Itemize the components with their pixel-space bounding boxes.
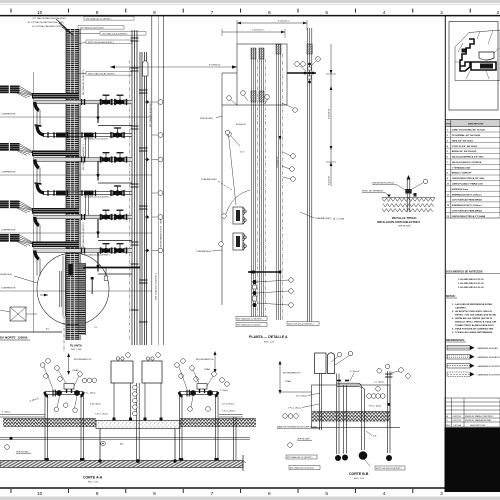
right column divider	[444, 16, 446, 488]
joint body	[405, 189, 411, 194]
bottom boxed label 2	[289, 466, 320, 470]
svg-text:1/2" DIA. DE REPOSICION (2007): 1/2" DIA. DE REPOSICION (2007)	[32, 17, 66, 20]
svg-text:T.F.CL. Ø(xx): T.F.CL. Ø(xx)	[288, 408, 301, 410]
floor line level 1	[0, 116, 152, 118]
tank 2	[142, 361, 162, 383]
tank legs	[114, 383, 161, 460]
svg-text:SPARRAGOS 5/8"9"x100mm: SPARRAGOS 5/8"9"x100mm	[452, 193, 482, 196]
key plan outline	[455, 30, 500, 81]
svg-text:4: 4	[383, 491, 386, 497]
ruler numbers top	[37, 10, 500, 16]
svg-text:CL. Ø(xx): CL. Ø(xx)	[374, 382, 384, 384]
parts table	[446, 120, 500, 219]
svg-text:9: 9	[96, 10, 99, 16]
label GAS-011	[100, 32, 146, 36]
junction dots on duct	[98, 459, 101, 462]
svg-text:EL 1/2"DIA. DE REPOSICION (200: EL 1/2"DIA. DE REPOSICION (2007)	[28, 21, 64, 24]
bottom caps	[335, 455, 341, 461]
svg-text:4" Ø(xxx): 4" Ø(xxx)	[350, 371, 359, 373]
duct bank bar	[0, 461, 243, 468]
legend row 3	[447, 364, 470, 369]
svg-text:ESC: 1:50: ESC: 1:50	[354, 478, 365, 480]
balloons row mid rect	[227, 96, 232, 101]
svg-text:DOCUMENTOS DE ANTECEDE: DOCUMENTOS DE ANTECEDE	[446, 271, 483, 274]
svg-text:8: 8	[153, 491, 156, 497]
planta bottom boxed label 2	[236, 323, 267, 327]
compresor labels	[1, 114, 16, 290]
top pipe labels boxed	[84, 17, 134, 21]
dashed centerline below	[63, 316, 65, 352]
circle thick branch pipe	[83, 267, 140, 269]
right balloons	[377, 369, 382, 374]
pipe clamp support 2	[233, 233, 247, 250]
detail circle A	[37, 253, 109, 325]
manifold stack floor 2	[0, 143, 32, 156]
clamp leader curves	[226, 190, 250, 214]
svg-text:SPARRAGOS 5/8"9"x100mm: SPARRAGOS 5/8"9"x100mm	[452, 204, 482, 207]
planta main rect	[237, 44, 287, 105]
cylinder B	[328, 353, 335, 374]
svg-text:JUNTA DIELECTRICA 2" PLANA: JUNTA DIELECTRICA 2" PLANA	[452, 215, 486, 218]
shallow pipe line	[0, 437, 250, 439]
svg-text:.... (B.L. 150R): .... (B.L. 150R)	[330, 219, 344, 221]
floor line level 3	[0, 232, 152, 234]
svg-text:2" Ø(xx): 2" Ø(xx)	[220, 390, 228, 392]
legend row 4	[447, 372, 470, 377]
earth hatch band A-A left	[3, 419, 96, 427]
svg-text:PB/TEO. CON LAS LINEAS QUE SE: PB/TEO. CON LAS LINEAS QUE SE IND	[455, 314, 497, 317]
svg-text:COMPRESOR: COMPRESOR	[1, 172, 16, 174]
svg-text:EL 1/2"DIA. CALIENTE (2007): EL 1/2"DIA. CALIENTE (2007)	[32, 25, 62, 28]
svg-text:1.- LAS EJES DE REFERENCIA EST: 1.- LAS EJES DE REFERENCIA ESTAN	[452, 303, 492, 306]
svg-text:CON TUERCAS PARA BRIDA: CON TUERCAS PARA BRIDA	[452, 199, 483, 202]
svg-text:B.L.: B.L.	[46, 329, 50, 331]
svg-text:10: 10	[37, 10, 43, 16]
svg-text:9: 9	[96, 491, 99, 497]
svg-text:CAÑO S/COSTURA 3/4" SCH-80: CAÑO S/COSTURA 3/4" SCH-80	[452, 129, 486, 132]
pipe row B floor 2	[35, 183, 163, 219]
tank balloons	[126, 353, 131, 358]
svg-text:DETALLE TIPICO: DETALLE TIPICO	[392, 216, 417, 220]
left balloons row	[283, 414, 288, 419]
svg-text:VALVULA MACHO C/PURGA: VALVULA MACHO C/PURGA	[452, 161, 482, 164]
circle thin pipe pair 2	[59, 271, 61, 307]
svg-text:FECHA: FECHA	[454, 424, 462, 427]
legend row 1	[447, 346, 470, 351]
svg-text:JUNTA PLANA 2" FIBRA CON: JUNTA PLANA 2" FIBRA CON	[452, 183, 483, 186]
sheet top border	[0, 15, 500, 17]
planta boundary polyline	[221, 73, 223, 305]
left regulator assembly	[45, 384, 84, 397]
svg-text:REV: REV	[446, 425, 451, 427]
svg-text:01/02/10: 01/02/10	[453, 416, 462, 418]
svg-text:Ø2"-GAS-002-01 (2007): Ø2"-GAS-002-01 (2007)	[237, 324, 261, 327]
svg-text:INSTRUMENTOS: INSTRUMENTOS	[74, 359, 92, 361]
svg-text:Ø2"-GAS-010-01 (2007): Ø2"-GAS-010-01 (2007)	[84, 138, 108, 141]
label SP-010	[86, 40, 132, 44]
svg-text:POS: POS	[446, 124, 451, 126]
svg-text:Ø1/2"-SP-010-A1 (EXIST.): Ø1/2"-SP-010-A1 (EXIST.)	[88, 41, 114, 44]
balloons row of four	[367, 394, 372, 399]
foundation square with X	[10, 307, 26, 321]
svg-text:7: 7	[211, 491, 214, 497]
small tank on riser	[143, 61, 149, 76]
balloon column between tanks	[133, 385, 138, 390]
svg-text:INSTRUMENTOS: INSTRUMENTOS	[196, 359, 214, 361]
riser pipe of detail	[406, 179, 408, 212]
circle inner wide hatch column	[79, 263, 86, 335]
svg-text:C.L.: C.L.	[94, 327, 98, 329]
svg-text:ESC: 1:50: ESC: 1:50	[88, 482, 99, 484]
note balloons	[5, 445, 10, 450]
svg-text:6: 6	[268, 10, 271, 16]
left wall column line	[33, 72, 35, 332]
earth hatch band B-B	[312, 412, 390, 423]
svg-text:CANTERO.: CANTERO.	[455, 307, 467, 310]
tank feet	[113, 418, 116, 421]
wall line 2	[163, 16, 165, 345]
clamp balloons	[222, 214, 227, 219]
svg-text:Ø2"-GAS-001-01 (EXIST.): Ø2"-GAS-001-01 (EXIST.)	[237, 318, 263, 321]
dim small arrows mid	[279, 136, 282, 140]
svg-text:PLANTA — DETALLE A: PLANTA — DETALLE A	[249, 335, 288, 339]
svg-text:JUNTA DIELECTRICA: JUNTA DIELECTRICA	[372, 182, 394, 185]
svg-text:S.T.D. Ø(xx): S.T.D. Ø(xx)	[222, 404, 234, 406]
riser top feed lines	[56, 19, 73, 35]
main hatched riser column	[66, 29, 79, 340]
svg-text:9"x0. Ø(xx): 9"x0. Ø(xx)	[296, 396, 307, 398]
svg-text:INSTRUMENTOS: INSTRUMENTOS	[283, 373, 301, 375]
wall line 1	[151, 16, 153, 345]
svg-text:1-GG-MM-33874-O-PL-03: 1-GG-MM-33874-O-PL-03	[458, 286, 484, 289]
svg-text:TIFAS: TIFAS	[285, 380, 292, 383]
svg-text:LUZ DE MEZANINE EXIST.- 9000: LUZ DE MEZANINE EXIST.- 9000	[160, 218, 163, 252]
top-left feed labels	[28, 17, 66, 28]
revision table	[445, 398, 500, 427]
svg-text:VER NOTA 5: VER NOTA 5	[200, 117, 214, 120]
svg-text:8: 8	[153, 10, 156, 16]
svg-text:CODO 90 3/4" SW 3000#: CODO 90 3/4" SW 3000#	[452, 145, 478, 148]
top dim line 2	[222, 31, 285, 33]
svg-text:BRIDA 2" S/WN RF: BRIDA 2" S/WN RF	[452, 172, 472, 175]
pipe row B floor 1	[35, 125, 163, 161]
svg-text:JUNTA DIELECTRICA 3/4" 150#: JUNTA DIELECTRICA 3/4" 150#	[452, 177, 485, 180]
svg-text:T.F.CL. Ø(xx): T.F.CL. Ø(xx)	[222, 411, 235, 413]
svg-text:TIFAS: TIFAS	[204, 368, 211, 371]
top dim line 1	[237, 22, 307, 24]
svg-text:DETALLE TIPICO. PREVIO A CADA: DETALLE TIPICO. PREVIO A CADA JUN	[455, 321, 497, 324]
svg-text:Ø2"-GAS-010-A1 (2007): Ø2"-GAS-010-A1 (2007)	[80, 26, 104, 29]
svg-text:Ø2"-GAS-011-A1 (EXIST.): Ø2"-GAS-011-A1 (EXIST.)	[84, 196, 110, 199]
svg-text:5: 5	[325, 491, 328, 497]
right assembly balloons	[175, 363, 180, 368]
label GAS-016	[86, 72, 132, 76]
svg-text:CORTE A-A: CORTE A-A	[83, 476, 103, 480]
balloon left lower	[227, 132, 232, 137]
svg-text:BASE DE HORMIGON H-8 (VER NOTA: BASE DE HORMIGON H-8 (VER NOTA)	[277, 426, 317, 429]
svg-text:2.- SE ADOPTA COMO NIVEL CERO: 2.- SE ADOPTA COMO NIVEL CERO EL	[452, 310, 493, 313]
secondary riser pipes	[132, 30, 147, 345]
svg-text:Ø2"-GAS-001-01 (EXIST.): Ø2"-GAS-001-01 (EXIST.)	[287, 456, 313, 459]
svg-text:1-GG-MM-33874-O-PL-02: 1-GG-MM-33874-O-PL-02	[458, 282, 484, 285]
svg-text:9.20. Ø(xx): 9.20. Ø(xx)	[90, 404, 101, 406]
bottom boxed label 1	[286, 455, 317, 459]
svg-text:4.- PARA POSTURA DE CAÑERIAS V: 4.- PARA POSTURA DE CAÑERIAS VER	[452, 328, 494, 331]
clamp upper balloon	[225, 130, 230, 135]
svg-text:VALVULA ESFERICA 3/4" 800#: VALVULA ESFERICA 3/4" 800#	[452, 156, 484, 159]
pipe flange nubs	[337, 380, 341, 382]
manifold stack floor 4	[0, 234, 32, 247]
svg-text:VER NOTA 5: VER NOTA 5	[16, 451, 30, 454]
joint balloons	[289, 278, 294, 283]
left assembly risers	[44, 396, 46, 460]
left assembly balloons	[40, 363, 45, 368]
floor line level 4	[0, 290, 152, 292]
pipe bundle 4 long	[308, 28, 312, 324]
svg-text:DESCRIPCION: DESCRIPCION	[468, 124, 484, 126]
pipe row A floor 3	[32, 208, 163, 242]
ruler numbers bottom	[37, 491, 443, 497]
left stub pipe	[0, 414, 45, 416]
manifold stack floor 1	[0, 86, 32, 99]
tank 1	[111, 361, 133, 383]
thick feed pipe	[287, 72, 316, 74]
svg-text:Ø2"-GAS-011-A1 (EXIST.): Ø2"-GAS-011-A1 (EXIST.)	[102, 32, 128, 35]
foundation pad	[96, 421, 180, 429]
svg-text:07/07/10: 07/07/10	[453, 420, 462, 422]
planta bottom boxed label 1	[236, 317, 267, 321]
legend row 2	[447, 355, 470, 360]
svg-text:Ø1/2"-SP-001-01 (EXIST.): Ø1/2"-SP-001-01 (EXIST.)	[376, 468, 402, 470]
flange ticks on secondary risers	[131, 38, 148, 322]
svg-text:CAÑERIAS EXISTENTES ENT.: CAÑERIAS EXISTENTES ENT.	[477, 374, 500, 377]
svg-text:3/4": 3/4"	[373, 436, 377, 438]
svg-text:COMPRESOR: COMPRESOR	[1, 114, 16, 116]
svg-text:A 1500.00: A 1500.00	[236, 123, 247, 126]
planta bottom boxed label 3	[287, 322, 319, 326]
svg-text:NOTAS:: NOTAS:	[446, 295, 456, 298]
svg-text:TUBERIA HOR.: TUBERIA HOR.	[196, 250, 212, 253]
right dim vertical	[330, 44, 332, 186]
svg-text:1" BRIDADA #300: 1" BRIDADA #300	[452, 166, 471, 169]
svg-text:3: 3	[440, 10, 443, 16]
fittings on bundle 4	[308, 63, 311, 66]
bottom gray chrome strip	[0, 497, 500, 500]
svg-text:DESCRIPCION: DESCRIPCION	[470, 425, 486, 427]
svg-text:EMISION PARA CONSTRUC: EMISION PARA CONSTRUC	[465, 415, 494, 418]
svg-text:E 100.00 m: E 100.00 m	[278, 21, 289, 23]
svg-text:S 10950.00: S 10950.00	[277, 156, 279, 168]
svg-text:TUBERIA VERT.: TUBERIA VERT.	[201, 178, 218, 181]
svg-text:Ø1/2"-SP-001-01 (EXIST.): Ø1/2"-SP-001-01 (EXIST.)	[288, 324, 314, 326]
pipe bundle 3	[277, 44, 281, 320]
pit rectangle	[312, 385, 391, 428]
svg-text:Ø3"-GAS-001-01 (EXIST.): Ø3"-GAS-001-01 (EXIST.)	[82, 69, 85, 95]
svg-text:INSTALACIÓN JUNTA DIELECTRICA: INSTALACIÓN JUNTA DIELECTRICA	[377, 221, 420, 224]
ruler ticks top	[11, 9, 470, 13]
svg-text:Ø10"-GAS-001-01 (EXIST.): Ø10"-GAS-001-01 (EXIST.)	[155, 273, 158, 300]
svg-text:CON TUERCAS PARA BRIDA: CON TUERCAS PARA BRIDA	[452, 209, 483, 212]
svg-text:TAPA 3/4" SW 3000#: TAPA 3/4" SW 3000#	[452, 140, 474, 143]
detail circle leader	[14, 276, 38, 283]
tank B	[315, 353, 327, 374]
svg-text:T.F.CL. Ø(xx): T.F.CL. Ø(xx)	[95, 414, 108, 416]
key plan leader lines	[455, 31, 499, 80]
svg-text:BRIDA 3/4" SW 150# RF: BRIDA 3/4" SW 150# RF	[452, 150, 477, 153]
ground line	[382, 197, 435, 199]
svg-text:FIFAS: FIFAS	[73, 369, 80, 372]
sheet bottom border	[0, 487, 500, 489]
arrow into circle left	[40, 294, 48, 296]
svg-text:E 10950.00: E 10950.00	[209, 65, 221, 67]
svg-text:N 150.00: N 150.00	[329, 175, 331, 185]
earth hatch band A-A right	[180, 419, 256, 427]
key plan thick walls	[460, 39, 496, 71]
svg-text:S.L. Ø(xx): S.L. Ø(xx)	[86, 392, 96, 394]
capped stub	[91, 279, 93, 294]
right regulator assembly	[179, 384, 218, 397]
riser side vertical line	[80, 29, 82, 340]
right stub pipes	[233, 417, 235, 460]
svg-text:7: 7	[211, 10, 214, 16]
svg-text:COMPRESOR: COMPRESOR	[1, 288, 16, 290]
svg-text:3: 3	[440, 491, 443, 497]
svg-text:CORTE B-B: CORTE B-B	[349, 472, 369, 476]
svg-text:4’-6": 4’-6"	[240, 152, 245, 154]
svg-text:T.F.CL. Ø(xx): T.F.CL. Ø(xx)	[368, 406, 381, 408]
manifold stack floor 3	[0, 201, 32, 214]
pad legs	[99, 429, 101, 461]
svg-text:PLANTA: PLANTA	[70, 344, 83, 348]
svg-text:DA NORTE- 120000: DA NORTE- 120000	[0, 336, 28, 340]
svg-text:ESPESOR 3mm: ESPESOR 3mm	[452, 189, 468, 191]
pipe clamp support 1	[233, 207, 247, 224]
svg-text:TOMAR PUNTO ALZADA PARA PROT: TOMAR PUNTO ALZADA PARA PROT	[455, 324, 495, 327]
right assembly risers	[179, 396, 181, 460]
bottom boxed label 3	[375, 466, 405, 470]
horizontal joint pipe	[248, 271, 281, 273]
tank top nubs	[116, 357, 119, 360]
svg-text:ESC: 1:25: ESC: 1:25	[264, 342, 275, 344]
branch valve drop	[105, 268, 107, 276]
svg-text:Ø3"-GAS-001-01 (EXIST.): Ø3"-GAS-001-01 (EXIST.)	[82, 222, 85, 248]
circle inner black component	[68, 264, 73, 276]
svg-text:COMPRESOR: COMPRESOR	[1, 230, 16, 232]
elbow pipe to right	[337, 382, 358, 384]
pipe row A floor 2	[32, 151, 163, 185]
svg-text:CAÑERIAS NUEVAS: CAÑERIAS NUEVAS	[477, 347, 498, 350]
balloon	[423, 179, 428, 184]
svg-text:5.- TODAS LAS LINEAS ENTERRADA: 5.- TODAS LAS LINEAS ENTERRADAS.	[452, 331, 493, 334]
earth zigzag hatch	[382, 198, 435, 201]
svg-text:A/C: A/C	[120, 443, 124, 446]
svg-text:4" Ø(xx): 4" Ø(xx)	[2, 412, 10, 414]
key plan detail box	[449, 22, 498, 111]
right pipe	[387, 371, 389, 453]
pipe row A floor 4	[32, 242, 163, 276]
svg-text:TE NORMAL 3/4" SW 3000#: TE NORMAL 3/4" SW 3000#	[452, 134, 481, 137]
svg-text:Ø3/4"-GAS-016-A1 (EXIST.): Ø3/4"-GAS-016-A1 (EXIST.)	[88, 72, 116, 75]
svg-text:Ø2"-GAS-002-01 (2007): Ø2"-GAS-002-01 (2007)	[290, 467, 314, 470]
ground line under fachada	[0, 331, 62, 333]
svg-text:5: 5	[325, 10, 328, 16]
svg-text:CAÑERIAS NUEVAS ENT.: CAÑERIAS NUEVAS ENT.	[477, 356, 500, 359]
tank balloons	[337, 352, 342, 357]
top gray chrome strip	[0, 0, 500, 3]
bundle centerlines dashed	[257, 59, 259, 318]
bundle side balloons	[291, 154, 296, 159]
svg-text:2: 2	[497, 10, 500, 16]
svg-text:VER NOTA 3: VER NOTA 3	[398, 224, 412, 227]
pit inner pipes	[320, 374, 365, 455]
pipe bundle 2	[260, 48, 264, 318]
circle thin pipe pair 1	[62, 256, 64, 317]
svg-text:DEL 1:100: DEL 1:100	[71, 349, 82, 351]
extra wall line	[157, 16, 159, 345]
svg-text:CAÑERIAS EXISTENTES: CAÑERIAS EXISTENTES	[477, 365, 500, 368]
svg-text:1-GG-MM-33874-O-PL-01: 1-GG-MM-33874-O-PL-01	[458, 278, 484, 281]
svg-text:DETALLE A: DETALLE A	[0, 273, 12, 276]
dielectric joint stack	[253, 280, 257, 284]
pipe bundle 1	[252, 48, 256, 318]
svg-text:Ø3"-GAS-001-01 (EXIST.): Ø3"-GAS-001-01 (EXIST.)	[86, 17, 112, 20]
svg-text:REFERENCIAS:: REFERENCIAS:	[446, 339, 465, 342]
svg-text:N 1500.00: N 1500.00	[329, 108, 331, 119]
svg-text:EMISION PARA APROBAC: EMISION PARA APROBAC	[465, 419, 492, 422]
mid pipe labels on rows	[84, 138, 110, 257]
title block black	[445, 428, 500, 493]
ruler ticks bottom	[11, 489, 413, 493]
svg-text:VER NOTA 5: VER NOTA 5	[297, 438, 311, 441]
svg-text:3.- INSTALAR LAS JUNTAS QUE SE: 3.- INSTALAR LAS JUNTAS QUE SE IN	[452, 317, 492, 320]
svg-text:4: 4	[383, 10, 386, 16]
svg-text:6: 6	[268, 491, 271, 497]
balloons near bundle 4 top	[316, 57, 321, 62]
pipe row A floor 1	[32, 93, 163, 127]
floor line level 2	[0, 174, 152, 176]
svg-text:S 5010.00 m: S 5010.00 m	[252, 30, 265, 32]
svg-text:10: 10	[37, 491, 43, 497]
